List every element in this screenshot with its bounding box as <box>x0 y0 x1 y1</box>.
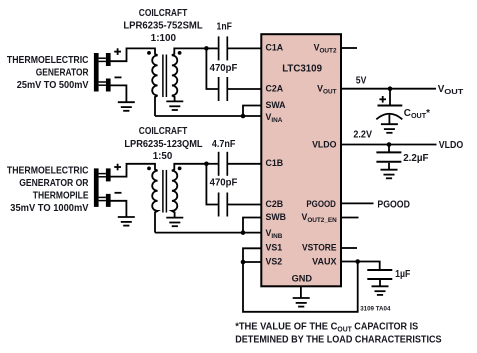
wire SWB <box>243 218 262 232</box>
transformer T2 primary winding <box>152 171 157 233</box>
wire VS2 <box>243 261 262 263</box>
svg-text:LPR6235-752SML: LPR6235-752SML <box>123 21 202 32</box>
wire VLDO rail <box>341 144 437 146</box>
capacitor 470pF upper <box>218 77 220 101</box>
wire VINA <box>155 115 262 117</box>
transformer T2 core <box>162 170 164 213</box>
svg-text:1:100: 1:100 <box>151 33 177 44</box>
wire junction2 down to 470pF lower <box>206 164 218 205</box>
svg-text:2.2µF: 2.2µF <box>403 153 428 164</box>
capacitor 2.2uF plates <box>376 151 401 153</box>
node junction1 <box>204 46 209 51</box>
wire 2.2uF branch <box>388 145 390 152</box>
svg-text:COILCRAFT: COILCRAFT <box>139 8 188 19</box>
thermoelectric generator TEG2 <box>94 168 111 207</box>
ground T2 secondary <box>166 218 183 227</box>
capacitor COUT curved plate <box>376 114 402 120</box>
svg-text:470pF: 470pF <box>210 178 238 189</box>
minus sign TEG1 <box>115 76 122 78</box>
svg-text:C2A: C2A <box>266 83 284 93</box>
ground TEG1 <box>118 102 135 111</box>
stub VOUT2 <box>341 47 357 49</box>
stub VSTORE <box>341 247 357 249</box>
plus sign COUT <box>379 98 386 100</box>
stub VOUT2_EN <box>341 217 359 219</box>
capacitor 470pF lower <box>218 193 220 217</box>
wire 470pF to C2A <box>227 88 262 90</box>
wire COUT to ground <box>388 115 390 125</box>
transformer T2 secondary winding <box>172 164 207 218</box>
ground GND pin <box>293 298 310 307</box>
svg-text:4.7nF: 4.7nF <box>212 139 236 150</box>
wire 4.7nF to C1B <box>227 163 262 165</box>
svg-text:C2B: C2B <box>266 199 284 209</box>
wire junction1 to 1nF <box>206 47 218 49</box>
wire 1uF to ground <box>379 280 381 286</box>
svg-text:3109 TA04: 3109 TA04 <box>360 305 391 312</box>
svg-text:SWB: SWB <box>266 212 287 222</box>
svg-text:THERMOPILE: THERMOPILE <box>33 191 89 202</box>
svg-text:2.2V: 2.2V <box>353 130 372 141</box>
wire TEG2 minus to ground <box>111 201 127 217</box>
plus sign TEG2 <box>114 166 121 168</box>
svg-text:VSTORE: VSTORE <box>302 243 337 253</box>
wire VAUX <box>341 262 380 270</box>
svg-text:1nF: 1nF <box>217 21 232 32</box>
wire 2.2uF to ground <box>388 163 390 170</box>
phase dot T1 primary <box>147 51 151 55</box>
svg-text:GENERATOR OR: GENERATOR OR <box>19 178 88 189</box>
svg-text:1µF: 1µF <box>395 269 410 280</box>
svg-text:470pF: 470pF <box>210 63 238 74</box>
wire junction2 to 4.7nF <box>206 163 218 165</box>
minus sign TEG2 <box>115 192 122 194</box>
wire VOUT rail <box>341 88 436 90</box>
svg-text:GENERATOR: GENERATOR <box>36 68 89 79</box>
node VS2 <box>241 260 246 265</box>
svg-text:VS2: VS2 <box>266 256 283 266</box>
ground COUT <box>381 124 398 133</box>
wire VS1 bottom loop to VAUX <box>243 248 358 311</box>
IC U1 LTC3109 body <box>261 34 341 286</box>
wire 470pF lower to C2B <box>227 204 262 206</box>
phase dot T1 secondary <box>178 51 182 55</box>
ground symbols <box>118 101 398 306</box>
svg-text:*THE VALUE OF THE COUT CAPACIT: *THE VALUE OF THE COUT CAPACITOR IS <box>235 322 418 334</box>
transformer T1 core <box>162 55 164 98</box>
wire TEG2 plus to T2 primary top <box>111 164 158 177</box>
transformer T1 secondary winding <box>172 48 207 101</box>
wire VINB <box>155 232 262 234</box>
svg-text:35mV TO 1000mV: 35mV TO 1000mV <box>10 203 89 214</box>
svg-text:PGOOD: PGOOD <box>306 199 336 209</box>
node VLDO <box>387 142 392 147</box>
svg-text:5V: 5V <box>356 76 367 87</box>
wire GND pin <box>300 287 302 299</box>
svg-text:C1B: C1B <box>266 158 284 168</box>
svg-text:LTC3109: LTC3109 <box>282 64 322 75</box>
svg-text:COILCRAFT: COILCRAFT <box>139 126 188 137</box>
wire TEG1 minus to ground <box>111 85 127 102</box>
capacitor 1nF <box>218 36 220 60</box>
wire COUT branch <box>389 89 391 105</box>
svg-text:DETEMINED BY THE LOAD CHARACTE: DETEMINED BY THE LOAD CHARACTERISTICS <box>235 335 442 346</box>
phase dot T2 secondary <box>178 167 182 171</box>
node VINB-SWB <box>241 230 246 235</box>
svg-text:SWA: SWA <box>266 100 287 110</box>
thermoelectric generator TEG1 <box>94 53 111 92</box>
ground 2.2uF <box>381 170 398 179</box>
IC pin labels <box>266 42 338 283</box>
svg-text:THERMOELECTRIC: THERMOELECTRIC <box>7 166 89 177</box>
ground TEG2 <box>118 217 135 226</box>
svg-text:VAUX: VAUX <box>312 256 337 266</box>
svg-text:THERMOELECTRIC: THERMOELECTRIC <box>7 55 89 66</box>
node VOUT <box>388 86 393 91</box>
svg-text:VLDO: VLDO <box>439 140 464 151</box>
node VAUX <box>355 259 360 264</box>
transformer T1 primary winding <box>152 55 157 116</box>
node junction2 <box>204 162 209 167</box>
svg-text:LPR6235-123QML: LPR6235-123QML <box>124 139 202 150</box>
wire junction1 down to 470pF <box>206 48 218 89</box>
svg-text:GND: GND <box>292 273 313 283</box>
capacitor 1uF plates <box>367 269 392 271</box>
svg-text:PGOOD: PGOOD <box>377 199 410 210</box>
svg-text:C1A: C1A <box>266 42 284 52</box>
ground T1 secondary <box>166 101 183 110</box>
phase dot T2 primary <box>147 167 151 171</box>
wire TEG1 plus to T1 primary top <box>111 48 158 61</box>
ground 1uF <box>372 286 389 295</box>
svg-text:1:50: 1:50 <box>153 151 173 162</box>
svg-text:VS1: VS1 <box>266 243 283 253</box>
svg-text:25mV TO 500mV: 25mV TO 500mV <box>17 80 89 91</box>
node VINA-SWA <box>241 114 246 119</box>
plus sign TEG1 <box>114 51 121 53</box>
wire SWA <box>243 106 262 117</box>
wire PGOOD <box>341 202 374 204</box>
capacitor 4.7nF <box>218 152 220 176</box>
wire 1nF to C1A <box>227 47 262 49</box>
capacitor COUT top plate <box>378 105 403 107</box>
svg-text:VLDO: VLDO <box>312 139 337 149</box>
